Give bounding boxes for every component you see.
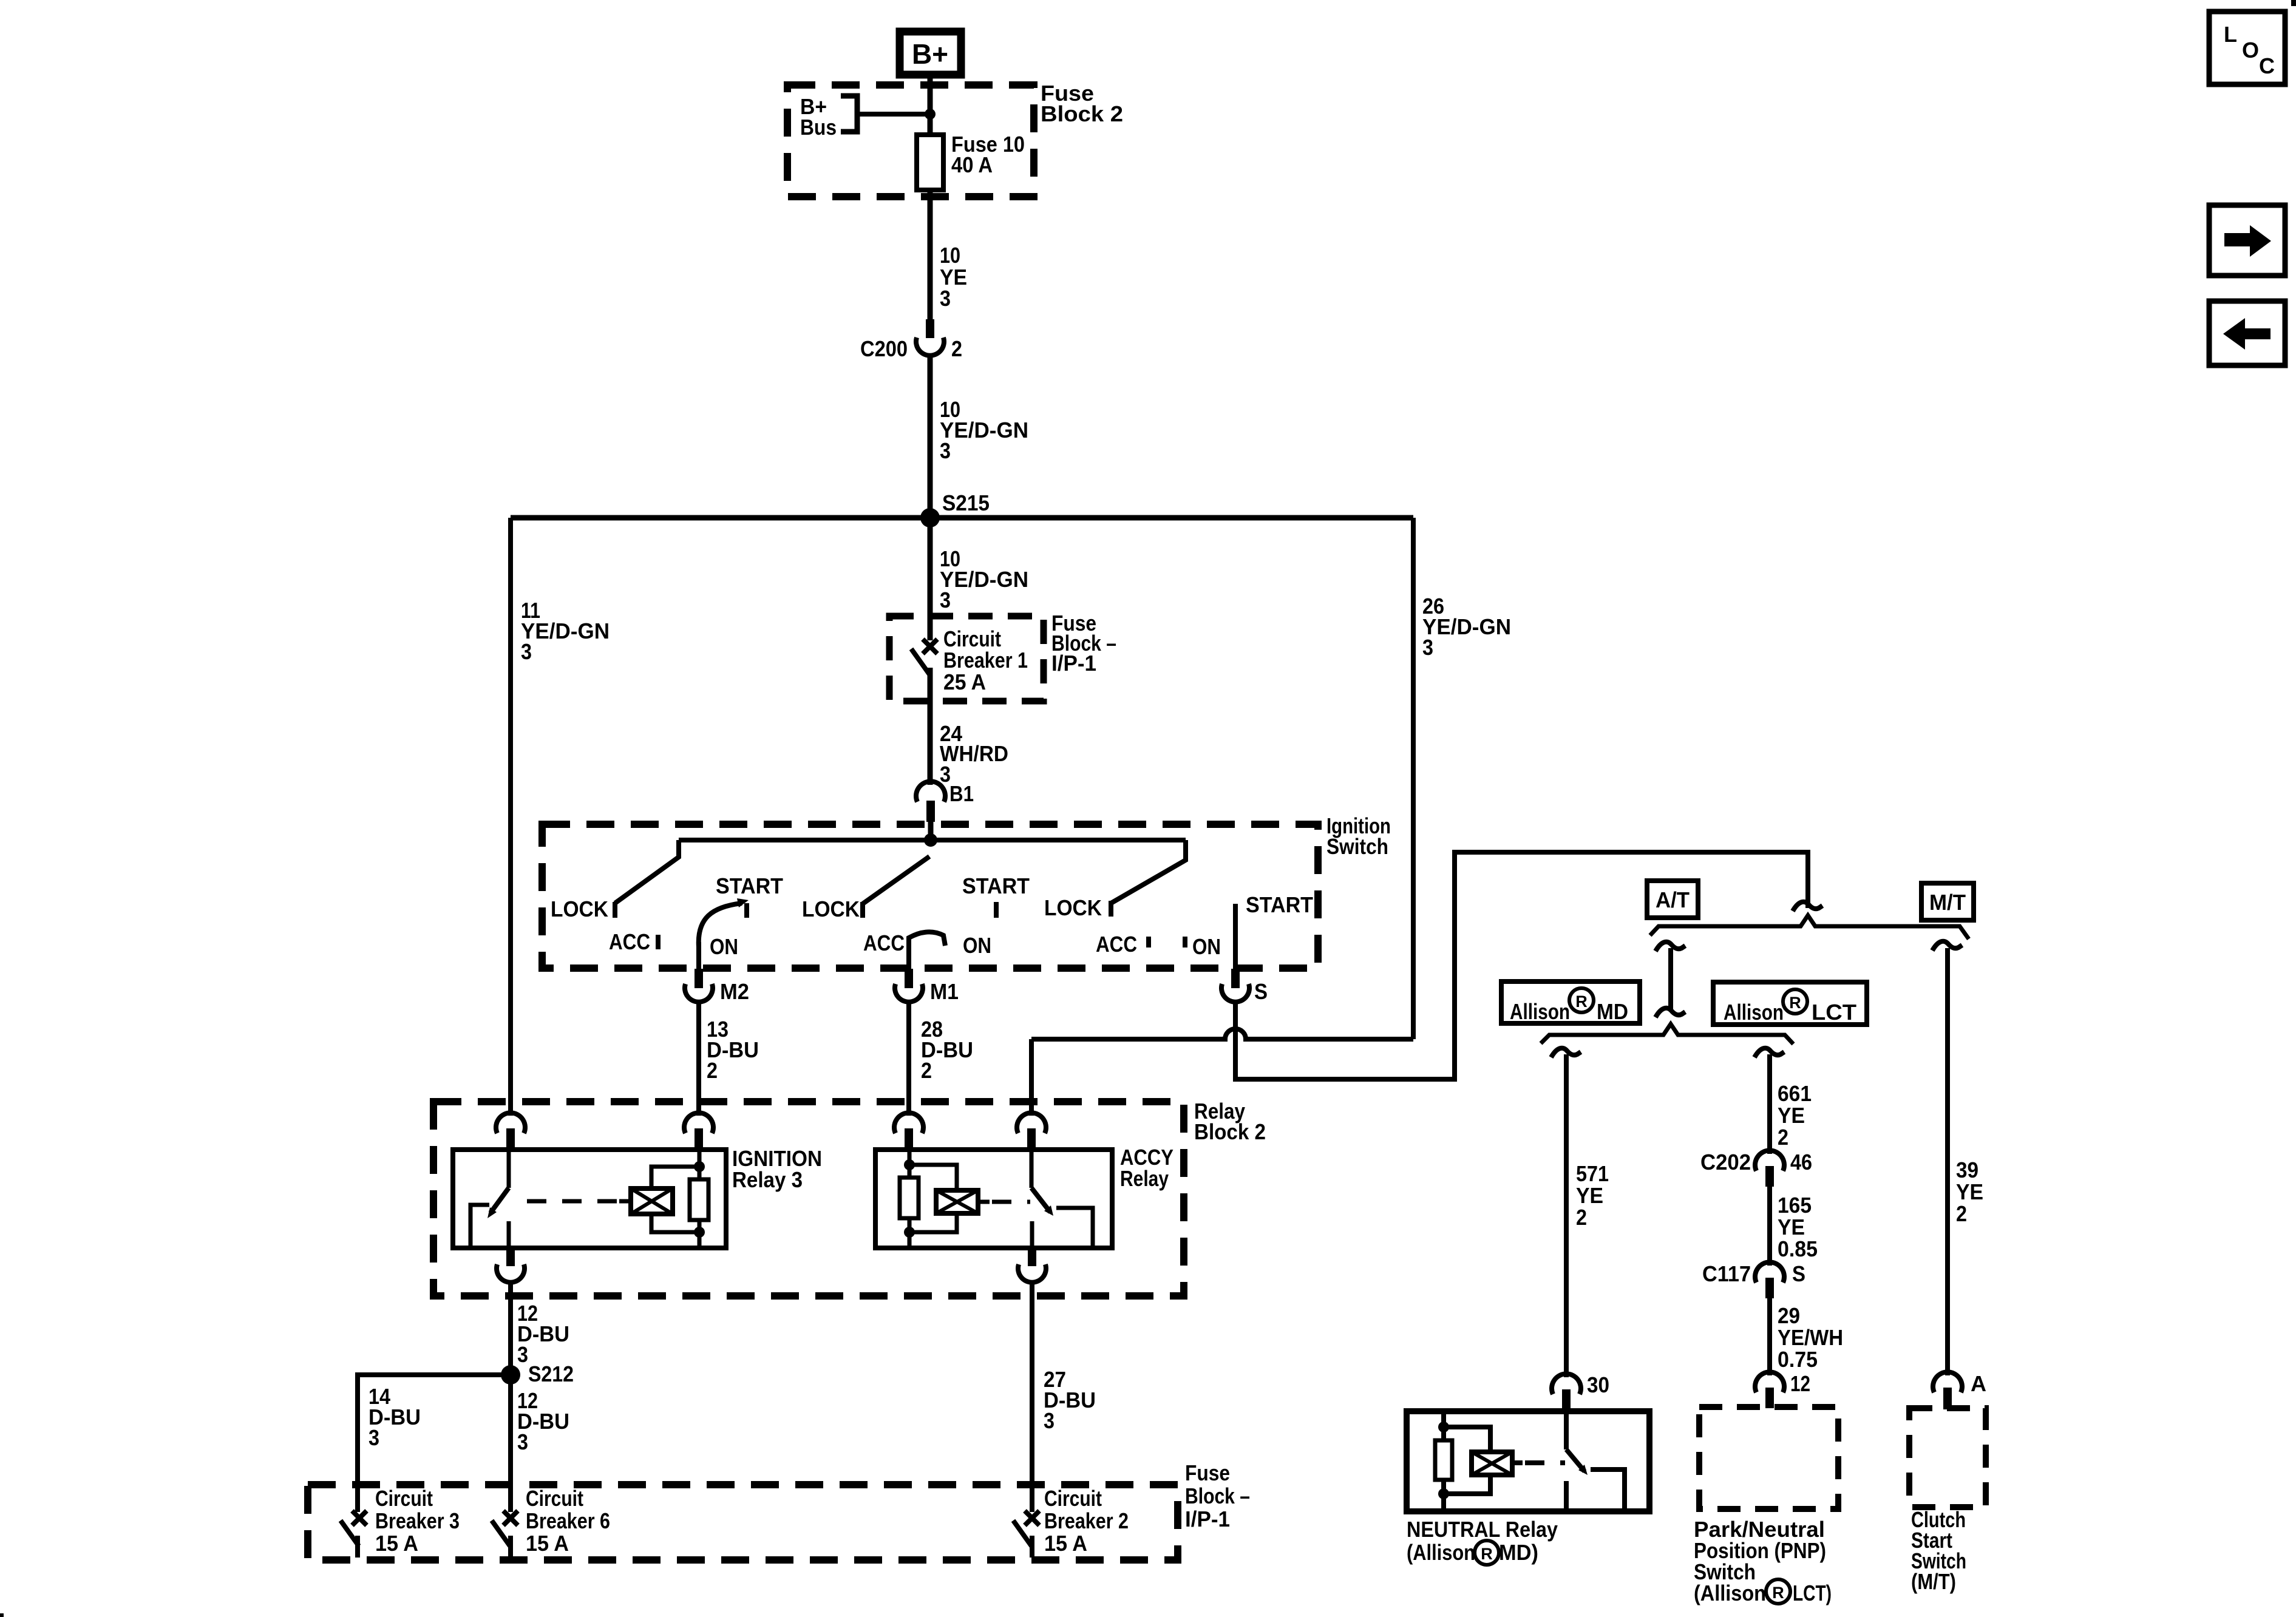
svg-text:YE/WH: YE/WH (1778, 1325, 1843, 1350)
ign relay resistor (690, 1179, 708, 1220)
IGNITION Relay 3 box (453, 1150, 726, 1248)
wire S215 bus (511, 515, 1413, 521)
svg-text:O: O (2242, 38, 2258, 63)
accy relay arm contact wire (1056, 1208, 1093, 1246)
svg-text:M2: M2 (720, 979, 749, 1004)
svg-text:MD): MD) (1499, 1540, 1538, 1565)
svg-text:B1: B1 (949, 781, 974, 806)
svg-text:0.85: 0.85 (1778, 1236, 1818, 1261)
connector pin x=1497 (894, 1113, 923, 1133)
B+ Bus tap (841, 96, 857, 132)
svg-text:R: R (1575, 992, 1588, 1011)
connector pin x=1151 (684, 1113, 713, 1133)
break symbol MD branch (1551, 1048, 1581, 1057)
connector pin x=841 (496, 1113, 525, 1133)
svg-text:ACC: ACC (609, 929, 650, 954)
connector C117 pin S (1755, 1262, 1784, 1283)
wire 26 to ACCY relay (hops over S wire) (1031, 1029, 1413, 1039)
svg-text:2: 2 (1956, 1201, 1967, 1226)
svg-text:L: L (2224, 22, 2237, 47)
svg-text:3: 3 (940, 588, 951, 612)
wire M1 (906, 938, 911, 971)
svg-text:3: 3 (517, 1342, 528, 1367)
svg-text:ON: ON (963, 933, 991, 958)
svg-text:ON: ON (1192, 934, 1221, 959)
Relay Block 2 (dashed) (433, 1102, 1184, 1296)
ign relay coil branch (651, 1167, 699, 1188)
svg-text:29: 29 (1778, 1303, 1800, 1328)
svg-text:Circuit: Circuit (526, 1486, 583, 1511)
svg-text:25 A: 25 A (943, 670, 986, 694)
svg-text:(Allison: (Allison (1694, 1581, 1766, 1605)
accy relay switch arm (1031, 1188, 1050, 1212)
wire C200 to S215 (928, 354, 933, 518)
wiper 2 (ACC to ON) (909, 932, 945, 946)
svg-text:3: 3 (940, 286, 951, 311)
wire S212 down (508, 1375, 513, 1512)
svg-text:Circuit: Circuit (375, 1486, 433, 1511)
neutral relay actuator link (1525, 1460, 1565, 1465)
svg-text:Breaker 2: Breaker 2 (1044, 1508, 1129, 1533)
connector C202 pin 46 (1755, 1150, 1784, 1171)
Clutch Start Switch box (dashed) (1909, 1408, 1986, 1507)
wiper S in START (1233, 904, 1238, 971)
circuit breaker CB6 15A (503, 1511, 518, 1525)
svg-text:A/T: A/T (1656, 887, 1690, 912)
wire S to transmission branch (1235, 852, 1808, 1079)
fuse Fuse 10 40 A (917, 135, 943, 190)
ign relay fixed contact (507, 1221, 511, 1246)
svg-text:YE: YE (1778, 1215, 1805, 1239)
wire 571 YE 2 (1564, 1054, 1569, 1377)
connector pin 30 (1552, 1374, 1581, 1394)
svg-text:Allison: Allison (1724, 1000, 1784, 1025)
svg-text:40 A: 40 A (951, 152, 993, 177)
ign relay coil feed (698, 1150, 702, 1179)
svg-text:12: 12 (1790, 1371, 1810, 1396)
svg-text:YE: YE (1778, 1103, 1805, 1128)
svg-text:YE/D-GN: YE/D-GN (1422, 614, 1511, 639)
node at fuse top (925, 109, 936, 120)
svg-text:LOCK: LOCK (551, 897, 608, 921)
wire B+ Bus to node (857, 112, 930, 117)
svg-text:ACC: ACC (863, 931, 905, 955)
neutral relay switch arm (1566, 1449, 1584, 1471)
neutral relay fixed contact (1564, 1481, 1569, 1510)
ON position 3 (1183, 937, 1187, 947)
svg-text:Breaker 6: Breaker 6 (526, 1508, 610, 1533)
wire ign relay to S212 (508, 1281, 513, 1375)
connector M1 (895, 984, 923, 1002)
section3 feed to LOCK (1111, 840, 1186, 903)
svg-text:15 A: 15 A (375, 1531, 418, 1556)
section2 feed to LOCK (863, 856, 929, 904)
accy relay resistor (900, 1178, 919, 1218)
svg-text:Relay 3: Relay 3 (732, 1167, 803, 1192)
svg-text:M1: M1 (930, 979, 959, 1004)
neutral relay coil branch (1444, 1427, 1490, 1452)
ign relay coil (631, 1188, 673, 1214)
svg-text:I/P-1: I/P-1 (1185, 1507, 1230, 1531)
ign relay arm contact wire (470, 1205, 489, 1246)
svg-text:YE: YE (1956, 1179, 1983, 1204)
B+ terminal (900, 32, 961, 75)
svg-text:C202: C202 (1700, 1150, 1751, 1175)
wire B1 into switch (928, 821, 934, 840)
connector pin x=1699 (1017, 1113, 1046, 1133)
wiper 1 (ON to START) (699, 903, 742, 947)
connector ign relay out (506, 1248, 515, 1266)
svg-text:START: START (1246, 892, 1313, 917)
accy relay coil branch (909, 1165, 957, 1190)
svg-text:30: 30 (1587, 1372, 1609, 1397)
Park/Neutral Position Switch box (dashed) (1699, 1407, 1838, 1509)
wire CB1 to B1 (928, 668, 933, 785)
svg-text:S212: S212 (528, 1361, 574, 1386)
svg-text:Breaker 1: Breaker 1 (943, 648, 1028, 673)
svg-text:2: 2 (1576, 1205, 1587, 1230)
circuit breaker CB1 25A (923, 639, 937, 654)
svg-text:Allison: Allison (1510, 999, 1570, 1024)
svg-text:3: 3 (940, 438, 951, 463)
svg-text:START: START (962, 873, 1030, 898)
neutral relay arm contact wire (1591, 1470, 1625, 1510)
neutral relay resistor (1435, 1440, 1452, 1480)
svg-text:S215: S215 (942, 490, 990, 515)
ACCY Relay box (875, 1150, 1112, 1248)
svg-text:Relay: Relay (1120, 1166, 1169, 1191)
svg-text:LCT): LCT) (1793, 1581, 1832, 1605)
circuit breaker CB2 15A (1025, 1511, 1039, 1525)
accy relay coil feed (908, 1150, 912, 1178)
wire B+ to Fuse 10 (928, 75, 933, 137)
svg-text:Block –: Block – (1185, 1483, 1250, 1508)
svg-text:2: 2 (921, 1058, 932, 1083)
svg-text:Switch: Switch (1326, 834, 1388, 859)
prev-page arrow (2209, 301, 2285, 365)
Ignition Switch box (dashed) (542, 824, 1318, 968)
splice S212 (501, 1365, 520, 1385)
svg-text:S: S (1254, 979, 1268, 1004)
ign relay switch arm (491, 1188, 509, 1213)
neutral relay coil (1472, 1452, 1512, 1475)
section1 feed to LOCK (615, 840, 679, 903)
break symbol M/T branch (1932, 941, 1962, 951)
ignition switch common bus (679, 838, 1186, 842)
svg-text:Fuse: Fuse (1185, 1460, 1230, 1485)
A/T label box (1647, 881, 1698, 918)
Fuse Block 2 (dashed) (787, 85, 1034, 197)
svg-text:LCT: LCT (1812, 1000, 1856, 1025)
accy relay switch pin (1030, 1150, 1034, 1188)
accy relay actuator link (992, 1200, 1030, 1204)
svg-text:661: 661 (1778, 1081, 1812, 1106)
connector accy relay out (1028, 1248, 1036, 1266)
svg-text:YE/D-GN: YE/D-GN (521, 619, 610, 643)
svg-text:(Allison: (Allison (1407, 1540, 1475, 1565)
svg-text:A: A (1971, 1371, 1986, 1396)
break symbol LCT branch (1754, 1048, 1784, 1057)
svg-text:R: R (1481, 1545, 1493, 1563)
svg-text:Breaker 3: Breaker 3 (375, 1508, 460, 1533)
LOC icon (2209, 12, 2285, 84)
accy relay fixed contact (1030, 1221, 1034, 1246)
svg-text:165: 165 (1778, 1193, 1812, 1218)
svg-text:10: 10 (940, 243, 960, 268)
wire left branch 11 YE/D-GN (508, 518, 513, 1116)
svg-text:R: R (1772, 1584, 1784, 1602)
connector B1 (916, 781, 945, 802)
svg-text:B+: B+ (912, 38, 948, 70)
splice S215 (920, 508, 940, 527)
connector M2 (685, 984, 713, 1002)
ign relay switch pin (507, 1150, 511, 1188)
wire 165 YE 0.85 (1767, 1187, 1772, 1266)
wire M2 (696, 942, 701, 971)
svg-text:46: 46 (1790, 1150, 1812, 1175)
LOCK position 3 (1109, 901, 1113, 917)
Allison MD box (1501, 981, 1640, 1023)
svg-text:C200: C200 (860, 336, 908, 361)
svg-text:3: 3 (1422, 635, 1433, 660)
break symbol (1793, 902, 1822, 911)
svg-text:YE/D-GN: YE/D-GN (940, 567, 1028, 592)
svg-text:LOCK: LOCK (1044, 895, 1102, 920)
svg-text:3: 3 (369, 1425, 379, 1450)
accy relay coil (936, 1190, 978, 1213)
svg-text:NEUTRAL Relay: NEUTRAL Relay (1407, 1517, 1558, 1542)
svg-text:3: 3 (1044, 1408, 1055, 1433)
svg-text:ACC: ACC (1096, 932, 1137, 957)
LOCK position 1 (613, 902, 617, 918)
svg-text:Block 2: Block 2 (1041, 101, 1123, 126)
svg-text:571: 571 (1576, 1161, 1609, 1186)
svg-text:YE/D-GN: YE/D-GN (940, 418, 1028, 442)
svg-text:START: START (716, 873, 783, 898)
svg-text:S: S (1792, 1261, 1805, 1286)
brace Allison MD|LCT (1541, 1024, 1793, 1044)
M/T label box (1921, 883, 1974, 920)
connector pin A (1933, 1372, 1962, 1392)
next-page arrow (2209, 205, 2285, 276)
wire S215 to Circuit Breaker 1 (928, 518, 933, 640)
break symbol A/T (1656, 942, 1685, 951)
connector pin 12 (1755, 1372, 1784, 1392)
ign relay actuator link (517, 1199, 617, 1204)
neutral relay coil feed (1441, 1411, 1446, 1440)
page corner marks (2291, 0, 2296, 6)
svg-text:3: 3 (521, 639, 532, 664)
svg-text:M/T: M/T (1929, 890, 1966, 915)
svg-text:39: 39 (1956, 1158, 1978, 1182)
svg-text:Bus: Bus (800, 115, 837, 140)
svg-text:Circuit: Circuit (1044, 1486, 1102, 1511)
Fuse Block - I/P-1 (dashed, lower) (308, 1485, 1178, 1560)
svg-text:C117: C117 (1702, 1261, 1751, 1286)
circuit breaker CB3 15A (352, 1511, 367, 1525)
svg-text:MD: MD (1597, 999, 1628, 1024)
svg-text:2: 2 (951, 336, 962, 361)
svg-text:2: 2 (707, 1058, 718, 1083)
wire 661 YE 2 (1767, 1054, 1772, 1154)
wire 29 YE/WH 0.75 (1767, 1298, 1772, 1375)
Allison LCT box (1713, 982, 1867, 1025)
Fuse Block - I/P-1 (dashed, upper) (889, 616, 1044, 701)
svg-text:LOCK: LOCK (802, 897, 860, 921)
svg-text:3: 3 (517, 1429, 528, 1454)
wire fuse to C200 (928, 190, 933, 320)
wire accy relay to CB2 (1030, 1281, 1034, 1512)
NEUTRAL Relay box (1407, 1411, 1649, 1511)
break symbol (1656, 1008, 1685, 1017)
svg-text:I/P-1: I/P-1 (1051, 651, 1096, 676)
svg-text:Block 2: Block 2 (1194, 1119, 1266, 1144)
svg-text:0.75: 0.75 (1778, 1347, 1818, 1372)
svg-text:15 A: 15 A (1044, 1531, 1087, 1556)
svg-text:C: C (2259, 53, 2275, 78)
wire 39 YE 2 (1945, 948, 1950, 1375)
connector S (1221, 984, 1249, 1002)
wire S212 branch left (358, 1375, 511, 1512)
wire right branch 26 YE/D-GN (1411, 518, 1416, 1039)
svg-text:2: 2 (1778, 1125, 1788, 1150)
svg-text:(M/T): (M/T) (1911, 1569, 1956, 1594)
svg-text:15 A: 15 A (526, 1531, 569, 1556)
wire A/T drop (1668, 948, 1673, 1010)
svg-text:ON: ON (710, 934, 738, 959)
LOCK position 2 (860, 902, 865, 918)
svg-text:YE: YE (1576, 1183, 1603, 1208)
neutral relay switch pin (1564, 1411, 1569, 1449)
connector C200 pin 2 (926, 319, 934, 338)
svg-text:R: R (1789, 994, 1801, 1012)
brace A/T|M/T (1650, 915, 1969, 939)
